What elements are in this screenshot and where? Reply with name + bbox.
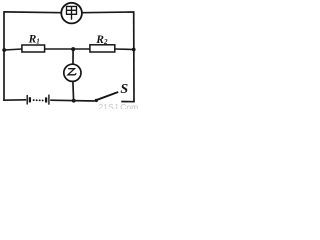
wire right vertical bbox=[133, 11, 135, 102]
svg-text:R2: R2 bbox=[95, 34, 108, 46]
battery long plate right bbox=[48, 95, 50, 105]
wire left vertical bbox=[3, 11, 5, 101]
node center junction bbox=[71, 47, 75, 51]
node bottom junction bbox=[72, 99, 76, 103]
battery ellipsis dots bbox=[33, 99, 44, 101]
wire meter-乙 top lead bbox=[72, 49, 74, 64]
wire bottom-left bbox=[3, 99, 26, 101]
battery short plate right bbox=[45, 97, 47, 102]
wire top-right bbox=[82, 11, 134, 14]
wire middle-center bbox=[45, 48, 90, 50]
wire middle-left bbox=[4, 49, 22, 50]
wire bottom-middle bbox=[50, 99, 95, 102]
battery short plate left bbox=[29, 97, 31, 102]
switch S blade bbox=[97, 92, 118, 100]
wire meter-乙 bottom lead bbox=[72, 81, 75, 101]
wire bottom-right bbox=[121, 101, 134, 103]
node right junction bbox=[132, 48, 136, 52]
switch S hinge dot bbox=[95, 99, 98, 102]
wire middle-right bbox=[115, 48, 134, 51]
resistor R1 bbox=[22, 33, 45, 52]
ammeter 甲 (meter A) bbox=[61, 3, 82, 24]
resistor R2 bbox=[90, 34, 115, 52]
node left junction bbox=[2, 48, 6, 52]
meter 乙 (meter Z) bbox=[64, 64, 81, 81]
svg-text:R1: R1 bbox=[28, 33, 40, 45]
svg-text:21SJ.Com: 21SJ.Com bbox=[99, 102, 139, 109]
wire top-left bbox=[4, 11, 61, 14]
battery long plate left bbox=[26, 95, 28, 105]
svg-text:S: S bbox=[120, 82, 128, 97]
